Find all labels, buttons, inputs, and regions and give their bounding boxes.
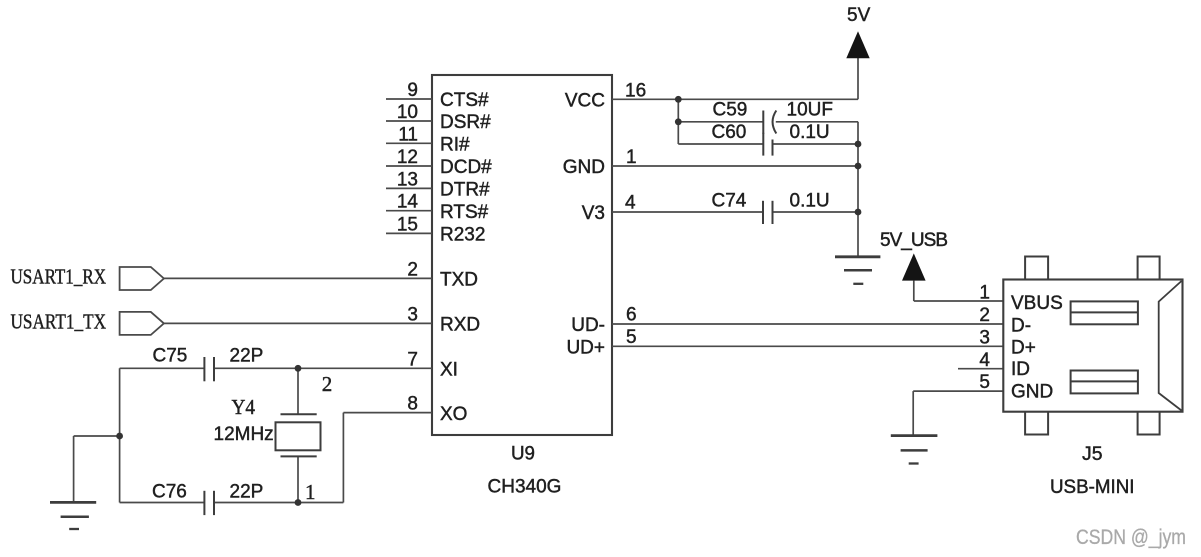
svg-text:0.1U: 0.1U bbox=[790, 122, 830, 143]
wire 5V_USB vertical bbox=[913, 281, 915, 301]
svg-text:D+: D+ bbox=[1011, 337, 1036, 358]
connector J5 contact 1 bbox=[1071, 301, 1138, 324]
svg-text:2: 2 bbox=[979, 305, 990, 326]
svg-text:USART1_TX: USART1_TX bbox=[11, 309, 107, 333]
svg-text:3: 3 bbox=[407, 304, 418, 325]
capacitor C74 plates bbox=[763, 201, 773, 224]
junction node VCC-cap branch bbox=[675, 96, 682, 103]
svg-text:4: 4 bbox=[625, 193, 636, 214]
wire XI pin7 left segment bbox=[120, 367, 205, 369]
wire UD- pin6 to USB D- bbox=[612, 323, 1003, 325]
svg-text:XO: XO bbox=[440, 404, 467, 425]
svg-text:1: 1 bbox=[626, 147, 637, 168]
pin 13 stub bbox=[386, 187, 432, 189]
connector J5 USB-MINI tabs bbox=[1025, 257, 1160, 435]
svg-text:TXD: TXD bbox=[440, 270, 478, 291]
pin names U9 right bbox=[563, 91, 605, 359]
svg-text:CH340G: CH340G bbox=[488, 477, 562, 498]
svg-text:VCC: VCC bbox=[565, 91, 605, 112]
junction node V3 bus bbox=[855, 209, 862, 216]
svg-text:12MHz: 12MHz bbox=[214, 424, 274, 445]
wire C60 row left bbox=[678, 143, 763, 145]
wire left bus vertical bbox=[119, 368, 121, 502]
wire C76 row left segment bbox=[120, 502, 205, 504]
svg-text:10: 10 bbox=[397, 102, 418, 123]
svg-text:J5: J5 bbox=[1082, 444, 1103, 465]
svg-text:GND: GND bbox=[563, 157, 605, 178]
svg-text:XI: XI bbox=[440, 360, 458, 381]
USB pin names bbox=[1011, 293, 1063, 402]
wire ground branch vertical bbox=[73, 436, 75, 502]
svg-text:8: 8 bbox=[407, 394, 418, 415]
svg-text:0.1U: 0.1U bbox=[790, 191, 830, 212]
wire RXD pin3 bbox=[164, 322, 432, 324]
power symbol 5V_USB triangle bbox=[902, 253, 926, 280]
wire VCC pin16 bbox=[612, 98, 858, 100]
svg-text:CSDN @_jym: CSDN @_jym bbox=[1076, 525, 1186, 549]
pin 10 stub bbox=[386, 120, 432, 122]
pin numbers U9 left bbox=[397, 80, 419, 415]
svg-text:U9: U9 bbox=[511, 444, 535, 465]
svg-text:C74: C74 bbox=[712, 191, 747, 212]
pin numbers U9 right bbox=[625, 80, 646, 348]
svg-text:5: 5 bbox=[979, 372, 990, 393]
power symbol 5V triangle bbox=[846, 31, 869, 58]
svg-text:15: 15 bbox=[397, 214, 418, 235]
wire 5V vertical bbox=[857, 58, 859, 100]
pin 14 stub bbox=[386, 210, 432, 212]
ground left below crystal bbox=[50, 502, 96, 529]
svg-text:C75: C75 bbox=[153, 346, 188, 367]
connector pentagon USART1_TX bbox=[120, 312, 164, 335]
wire ID pin4 stub bbox=[958, 368, 1003, 370]
svg-text:3: 3 bbox=[979, 328, 990, 349]
junction node XI crystal bbox=[295, 365, 302, 372]
svg-text:11: 11 bbox=[398, 124, 418, 145]
wire USB GND pin5 bbox=[913, 390, 1003, 392]
connector J5 contact 2 bbox=[1071, 371, 1138, 394]
svg-text:VBUS: VBUS bbox=[1011, 293, 1063, 314]
svg-text:USART1_RX: USART1_RX bbox=[11, 265, 107, 289]
wire crystal top stub bbox=[297, 368, 299, 414]
junction node left ground tee bbox=[116, 433, 123, 440]
wire right ground bus bbox=[857, 122, 859, 257]
capacitor C60 plates bbox=[763, 133, 772, 156]
svg-text:RTS#: RTS# bbox=[440, 202, 489, 223]
wire C59 row right bbox=[776, 121, 858, 123]
svg-text:DSR#: DSR# bbox=[440, 112, 491, 133]
svg-text:GND: GND bbox=[1011, 381, 1053, 402]
svg-text:C60: C60 bbox=[712, 122, 747, 143]
svg-text:12: 12 bbox=[397, 147, 418, 168]
junction node C60 bus bbox=[855, 141, 862, 148]
svg-text:4: 4 bbox=[979, 350, 990, 371]
svg-text:1: 1 bbox=[979, 283, 990, 304]
USB pin numbers bbox=[979, 283, 990, 394]
svg-text:UD-: UD- bbox=[571, 315, 605, 336]
wire V3 pin4 left bbox=[612, 211, 763, 213]
wire XI pin7 right segment bbox=[214, 367, 432, 369]
wire GND pin1 bbox=[612, 165, 858, 167]
svg-text:RXD: RXD bbox=[440, 315, 480, 336]
wire V3 pin4 right bbox=[773, 211, 859, 213]
wire C60 row right bbox=[773, 143, 859, 145]
wire XO loop vertical bbox=[342, 413, 344, 503]
svg-text:USB-MINI: USB-MINI bbox=[1050, 477, 1135, 498]
svg-text:7: 7 bbox=[407, 349, 418, 370]
svg-text:UD+: UD+ bbox=[566, 338, 605, 359]
wire XO pin8 bbox=[343, 412, 432, 414]
svg-text:14: 14 bbox=[397, 192, 419, 213]
wire VBUS pin1 bbox=[914, 300, 1004, 302]
pin 15 stub bbox=[386, 232, 432, 234]
wire C76 row right segment bbox=[214, 502, 343, 504]
svg-text:R232: R232 bbox=[440, 225, 485, 246]
svg-text:C59: C59 bbox=[713, 100, 748, 121]
svg-text:5: 5 bbox=[626, 327, 637, 348]
pin names U9 left bbox=[440, 90, 492, 425]
capacitor C76 plates bbox=[204, 491, 214, 515]
ground USB GND bbox=[891, 436, 938, 464]
wire USB ground vertical bbox=[912, 391, 914, 436]
svg-text:22P: 22P bbox=[230, 346, 264, 367]
svg-text:V3: V3 bbox=[582, 203, 605, 224]
crystal Y4 bbox=[276, 414, 321, 456]
svg-text:C76: C76 bbox=[152, 482, 187, 503]
svg-text:16: 16 bbox=[625, 80, 646, 101]
IC U9 body bbox=[432, 75, 612, 435]
svg-text:10UF: 10UF bbox=[787, 100, 833, 121]
svg-text:DCD#: DCD# bbox=[440, 157, 492, 178]
svg-text:2: 2 bbox=[322, 372, 333, 396]
connector J5 bevel bbox=[1159, 281, 1182, 411]
wire cap branch vertical bbox=[677, 99, 679, 144]
wire C59 row left bbox=[678, 121, 763, 123]
junction node C59 tee bbox=[675, 118, 682, 125]
svg-text:DTR#: DTR# bbox=[440, 180, 490, 201]
ground right of C74 bus bbox=[835, 257, 880, 284]
svg-text:5V: 5V bbox=[847, 5, 871, 26]
svg-text:22P: 22P bbox=[230, 482, 264, 503]
connector J5 USB-MINI body bbox=[1003, 280, 1182, 412]
pin 11 stub bbox=[386, 142, 432, 144]
svg-text:1: 1 bbox=[305, 480, 316, 504]
capacitor C75 plates bbox=[204, 357, 214, 381]
pin 9 stub bbox=[386, 98, 432, 100]
svg-text:9: 9 bbox=[407, 80, 418, 101]
wire ground branch horizontal bbox=[74, 435, 120, 437]
wire UD+ pin5 to USB D+ bbox=[612, 345, 1003, 347]
svg-text:13: 13 bbox=[397, 169, 418, 190]
svg-text:CTS#: CTS# bbox=[440, 90, 489, 111]
svg-text:5V_USB: 5V_USB bbox=[880, 230, 948, 251]
svg-text:ID: ID bbox=[1011, 359, 1030, 380]
svg-text:D-: D- bbox=[1011, 315, 1031, 336]
wire crystal bottom stub bbox=[297, 456, 299, 502]
svg-text:RI#: RI# bbox=[440, 135, 470, 156]
junction node crystal bottom bbox=[295, 499, 302, 506]
connector pentagon USART1_RX bbox=[120, 267, 164, 290]
svg-text:6: 6 bbox=[626, 305, 637, 326]
junction node GND bus bbox=[855, 163, 862, 170]
wire TXD pin2 bbox=[164, 277, 432, 279]
capacitor C59 plates bbox=[763, 111, 776, 134]
pin 12 stub bbox=[386, 165, 432, 167]
svg-text:Y4: Y4 bbox=[232, 395, 256, 419]
svg-text:2: 2 bbox=[407, 259, 418, 280]
